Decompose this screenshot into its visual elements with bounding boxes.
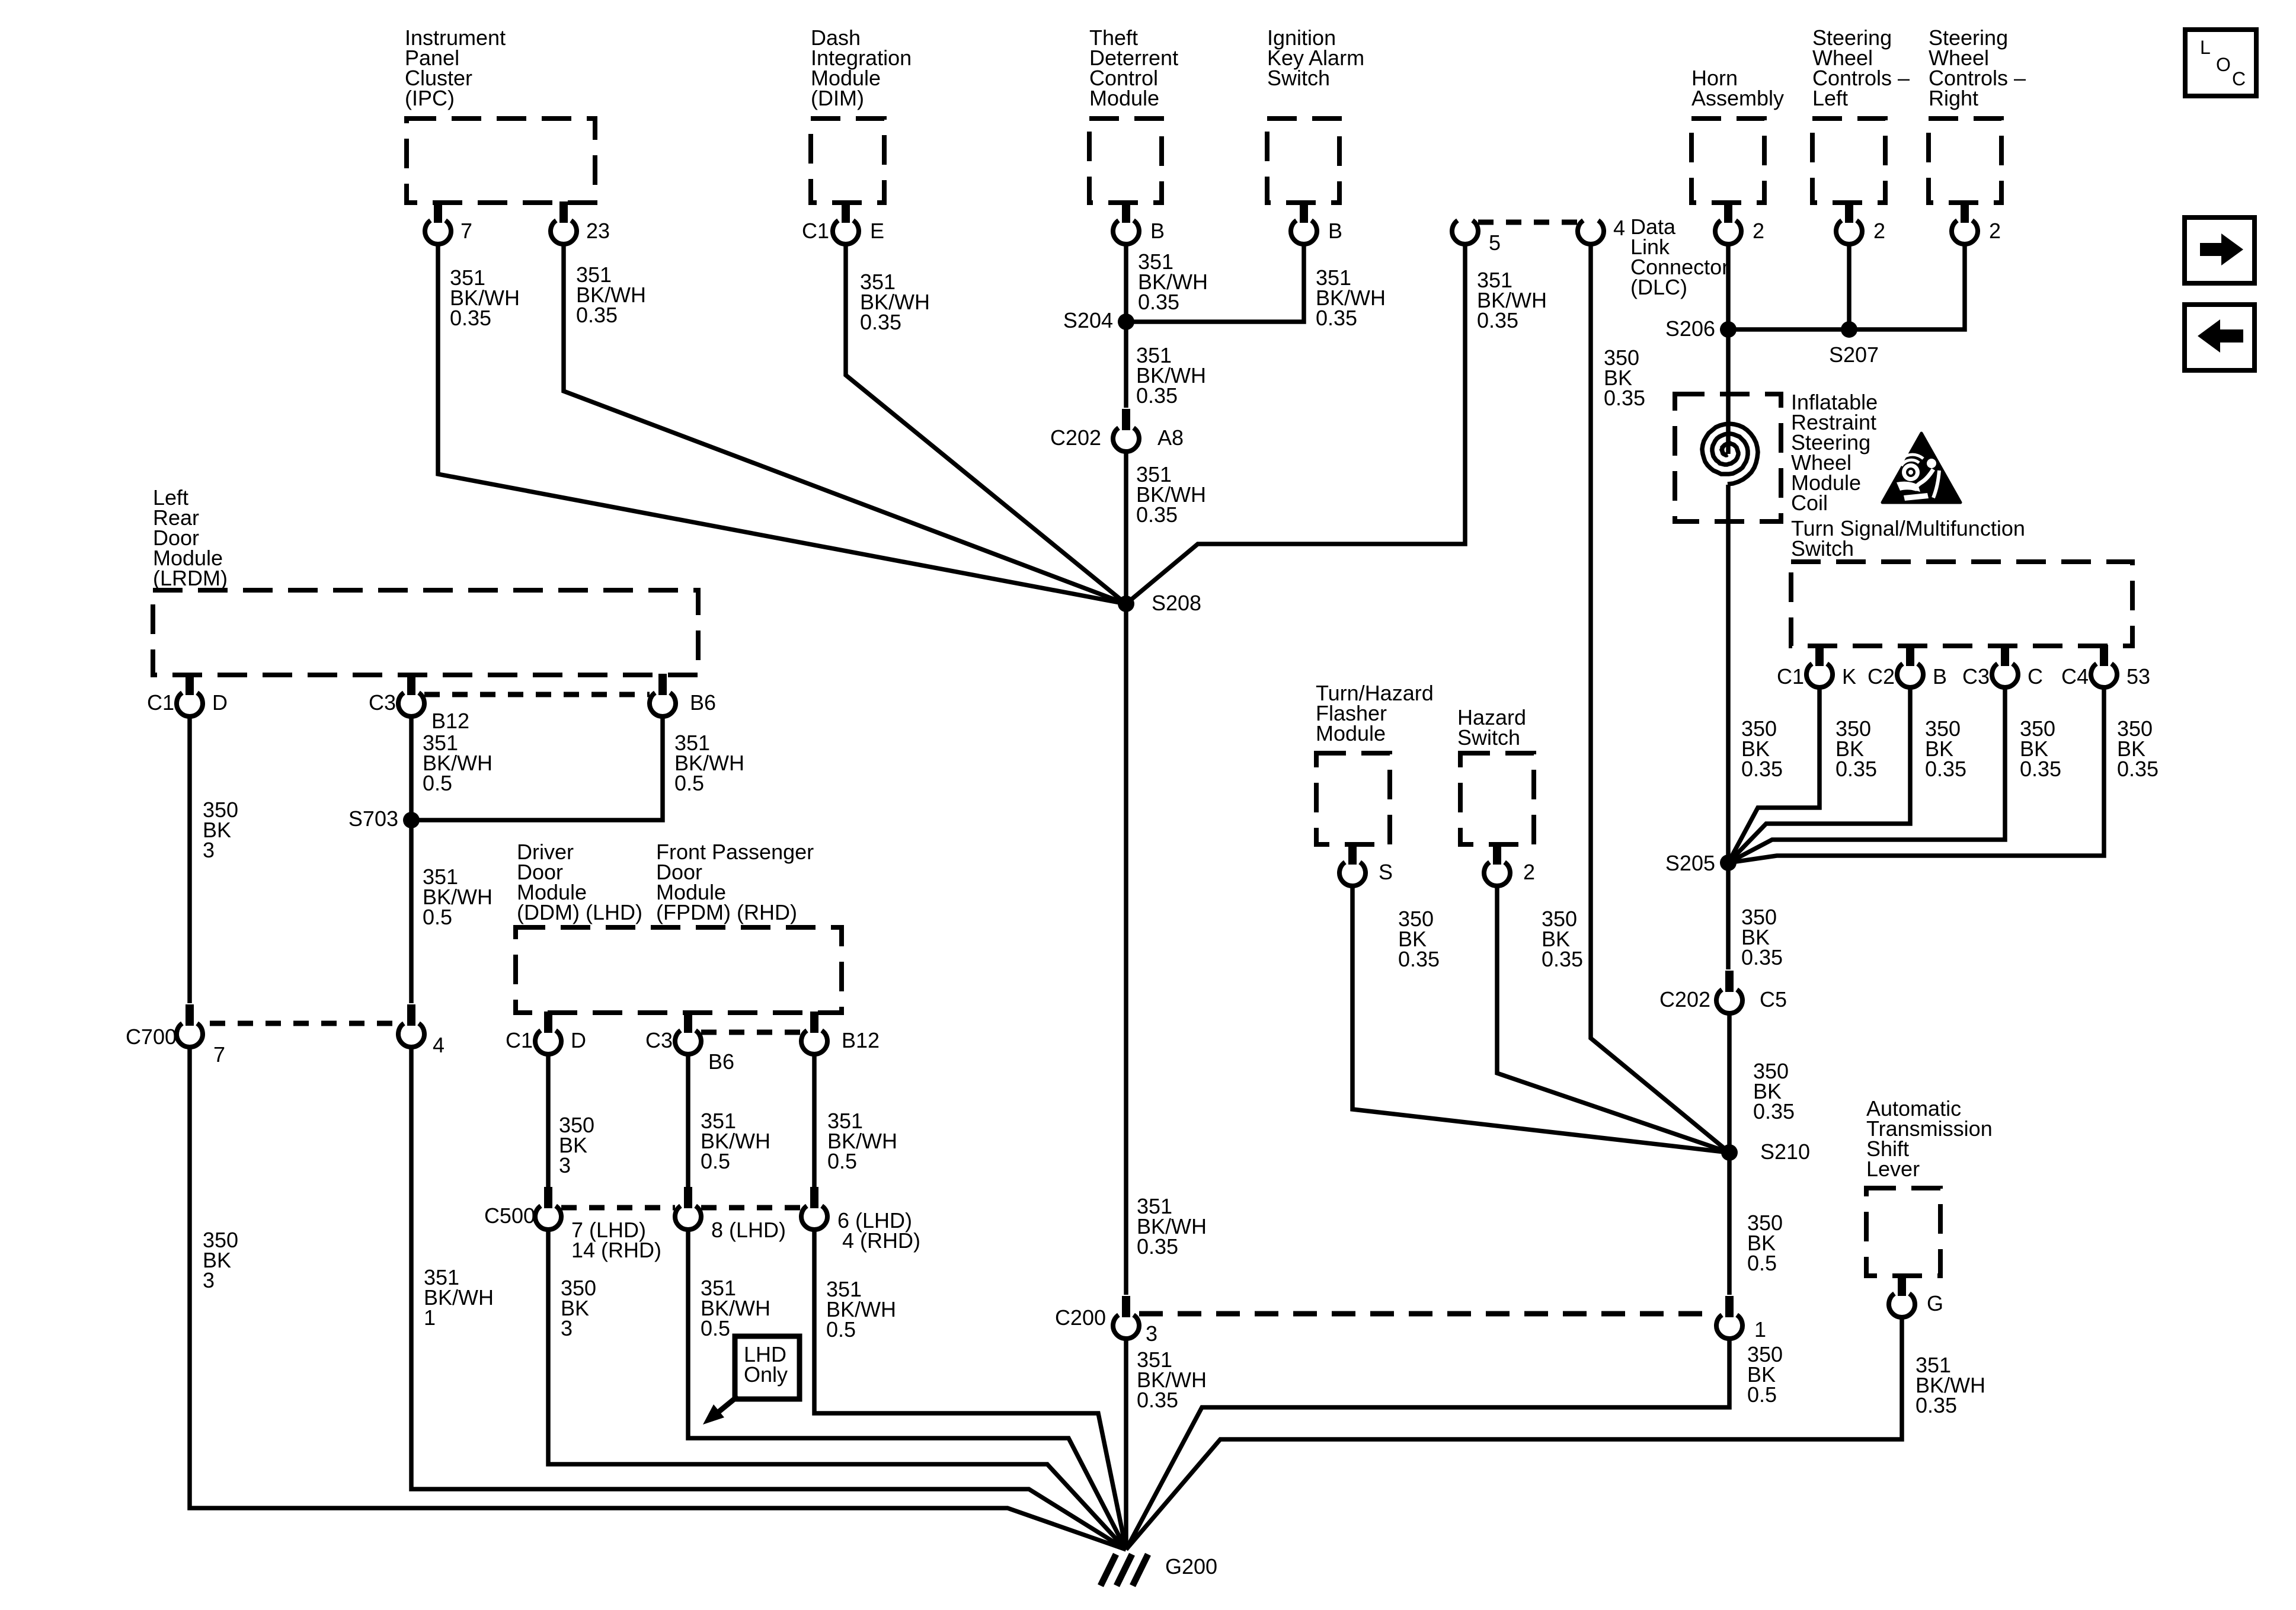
svg-text:3: 3 [1146, 1321, 1157, 1346]
svg-text:0.35: 0.35 [1741, 945, 1783, 969]
svg-text:0.5: 0.5 [423, 771, 452, 795]
svg-text:Left: Left [1812, 86, 1848, 110]
svg-text:Coil: Coil [1791, 491, 1828, 515]
svg-text:C200: C200 [1055, 1305, 1106, 1330]
svg-text:A8: A8 [1157, 425, 1184, 450]
svg-text:C700: C700 [126, 1025, 177, 1049]
svg-text:C5: C5 [1760, 987, 1787, 1012]
svg-text:3: 3 [203, 1268, 215, 1292]
svg-text:0.35: 0.35 [576, 303, 618, 327]
svg-text:C3: C3 [369, 690, 396, 715]
svg-text:0.35: 0.35 [1136, 383, 1178, 408]
svg-text:B6: B6 [708, 1049, 734, 1074]
svg-text:G: G [1927, 1291, 1943, 1315]
svg-text:14 (RHD): 14 (RHD) [571, 1238, 661, 1262]
svg-text:C1: C1 [1777, 664, 1804, 689]
svg-text:K: K [1842, 664, 1856, 689]
svg-text:1: 1 [424, 1305, 436, 1330]
svg-text:5: 5 [1489, 231, 1501, 255]
svg-text:0.35: 0.35 [1916, 1393, 1957, 1417]
svg-text:2: 2 [1873, 219, 1885, 243]
svg-text:0.35: 0.35 [1753, 1099, 1795, 1124]
svg-text:Lever: Lever [1866, 1157, 1920, 1181]
svg-text:B6: B6 [690, 690, 716, 715]
svg-text:0.35: 0.35 [1398, 947, 1440, 971]
svg-text:S: S [1379, 860, 1393, 884]
svg-text:S207: S207 [1829, 343, 1879, 367]
svg-text:(FPDM) (RHD): (FPDM) (RHD) [656, 900, 797, 924]
svg-text:0.35: 0.35 [1136, 502, 1178, 527]
svg-text:(LRDM): (LRDM) [153, 566, 228, 590]
svg-text:53: 53 [2126, 664, 2150, 689]
svg-text:2: 2 [1523, 860, 1535, 884]
svg-text:S204: S204 [1063, 308, 1113, 332]
svg-text:C: C [2028, 664, 2043, 689]
svg-text:0.5: 0.5 [674, 771, 704, 795]
svg-text:B: B [1150, 219, 1165, 243]
svg-text:1: 1 [1754, 1317, 1766, 1342]
svg-text:0.35: 0.35 [1542, 947, 1583, 971]
svg-text:3: 3 [559, 1153, 571, 1177]
svg-text:E: E [870, 219, 884, 243]
svg-text:(IPC): (IPC) [405, 86, 455, 110]
svg-text:3: 3 [203, 838, 215, 862]
svg-text:B12: B12 [842, 1028, 880, 1052]
svg-text:0.35: 0.35 [1137, 1388, 1178, 1412]
svg-text:C1: C1 [506, 1028, 533, 1052]
svg-text:0.5: 0.5 [1747, 1251, 1777, 1275]
svg-text:Only: Only [744, 1362, 788, 1387]
svg-text:0.35: 0.35 [2117, 757, 2159, 781]
svg-text:0.35: 0.35 [1138, 290, 1179, 314]
svg-text:C1: C1 [802, 219, 829, 243]
svg-text:0.5: 0.5 [827, 1149, 857, 1173]
svg-text:4: 4 [1613, 216, 1625, 240]
svg-text:0.5: 0.5 [826, 1317, 856, 1342]
svg-text:C3: C3 [645, 1028, 673, 1052]
svg-text:0.35: 0.35 [1741, 757, 1783, 781]
svg-text:0.35: 0.35 [450, 306, 491, 330]
svg-text:S703: S703 [348, 806, 398, 831]
svg-text:7: 7 [461, 219, 472, 243]
svg-text:3: 3 [561, 1316, 573, 1340]
svg-text:C1: C1 [147, 690, 174, 715]
svg-text:S206: S206 [1665, 316, 1715, 341]
svg-text:S210: S210 [1760, 1140, 1810, 1164]
svg-text:0.35: 0.35 [1604, 386, 1645, 410]
svg-text:D: D [571, 1028, 586, 1052]
svg-text:(DLC): (DLC) [1630, 275, 1687, 299]
svg-text:(DIM): (DIM) [811, 86, 864, 110]
svg-text:4: 4 [433, 1033, 445, 1057]
svg-text:0.5: 0.5 [701, 1149, 730, 1173]
svg-text:Assembly: Assembly [1691, 86, 1784, 110]
svg-text:C202: C202 [1659, 987, 1710, 1012]
svg-text:0.35: 0.35 [1137, 1234, 1178, 1259]
svg-text:0.35: 0.35 [1925, 757, 1966, 781]
svg-text:0.5: 0.5 [423, 905, 452, 929]
svg-text:0.35: 0.35 [1835, 757, 1877, 781]
svg-text:Switch: Switch [1267, 66, 1330, 90]
svg-text:Switch: Switch [1457, 725, 1520, 750]
svg-text:C: C [2232, 68, 2246, 89]
svg-text:C3: C3 [1962, 664, 1990, 689]
svg-text:(DDM) (LHD): (DDM) (LHD) [517, 900, 642, 924]
svg-text:2: 2 [1753, 219, 1764, 243]
svg-text:23: 23 [586, 219, 610, 243]
svg-text:Module: Module [1089, 86, 1159, 110]
svg-text:B: B [1933, 664, 1947, 689]
svg-text:0.5: 0.5 [1747, 1382, 1777, 1407]
svg-text:C2: C2 [1868, 664, 1895, 689]
svg-text:Right: Right [1929, 86, 1978, 110]
svg-text:0.35: 0.35 [1316, 306, 1357, 330]
svg-text:0.5: 0.5 [701, 1316, 730, 1340]
svg-text:B12: B12 [431, 709, 469, 733]
svg-text:L: L [2200, 37, 2211, 58]
svg-text:4 (RHD): 4 (RHD) [842, 1228, 920, 1253]
svg-text:8 (LHD): 8 (LHD) [711, 1218, 786, 1242]
svg-text:S205: S205 [1665, 851, 1715, 875]
svg-text:0.35: 0.35 [1477, 308, 1518, 332]
svg-text:S208: S208 [1152, 591, 1201, 615]
svg-text:C202: C202 [1050, 425, 1101, 450]
svg-text:7: 7 [213, 1042, 225, 1067]
svg-text:G200: G200 [1165, 1554, 1217, 1579]
svg-text:0.35: 0.35 [860, 310, 901, 334]
svg-text:Module: Module [1316, 721, 1386, 745]
svg-text:2: 2 [1989, 219, 2001, 243]
svg-text:B: B [1328, 219, 1342, 243]
svg-text:Switch: Switch [1791, 536, 1854, 561]
svg-text:D: D [212, 690, 228, 715]
svg-text:C4: C4 [2061, 664, 2089, 689]
svg-text:0.35: 0.35 [2020, 757, 2061, 781]
svg-text:O: O [2216, 54, 2231, 75]
svg-text:C500: C500 [484, 1204, 535, 1228]
